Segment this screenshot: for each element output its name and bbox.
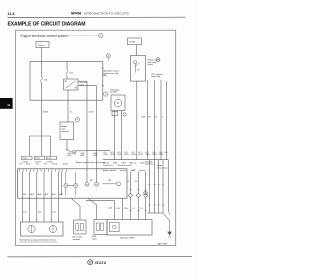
svg-text:1.25: 1.25 <box>52 212 56 214</box>
svg-text:sensor: sensor <box>139 169 145 172</box>
svg-text:B/W: B/W <box>142 116 146 118</box>
svg-text:0.5 W: 0.5 W <box>89 111 94 113</box>
svg-text:ECN: ECN <box>63 163 68 165</box>
svg-text:L-7: L-7 <box>132 208 135 210</box>
svg-text:solenoid: solenoid <box>61 131 68 133</box>
svg-text:valve: valve <box>92 239 97 241</box>
svg-text:Chute: Chute <box>52 162 59 165</box>
svg-text:Battery: Battery <box>38 44 44 47</box>
svg-text:L: L <box>162 116 163 118</box>
svg-text:W-R: W-R <box>125 154 130 156</box>
svg-text:W-R: W-R <box>146 154 151 156</box>
svg-text:ISUZU: ISUZU <box>95 261 107 265</box>
svg-text:Crank case: Crank case <box>103 165 113 167</box>
svg-text:Fuel injection pump (control s: Fuel injection pump (control sleeve sens… <box>20 239 56 242</box>
svg-text:Engine speed: Engine speed <box>103 170 116 172</box>
svg-text:PSG: PSG <box>122 163 127 165</box>
svg-text:W-R: W-R <box>159 154 164 156</box>
svg-text:11: 11 <box>7 103 11 107</box>
svg-text:B/W: B/W <box>68 155 72 157</box>
svg-text:FCV: FCV <box>26 163 31 165</box>
svg-text:W-R: W-R <box>118 154 123 156</box>
svg-text:1.25: 1.25 <box>38 212 42 214</box>
svg-text:W-R: W-R <box>104 154 109 156</box>
svg-text:1-3: 1-3 <box>135 181 138 183</box>
svg-text:1-5: 1-5 <box>127 181 130 183</box>
svg-text:VSS: VSS <box>113 163 118 165</box>
svg-text:EXAMPLE OF CIRCUIT DIAGRAM: EXAMPLE OF CIRCUIT DIAGRAM <box>8 22 86 28</box>
svg-text:(in tank): (in tank) <box>110 91 117 94</box>
svg-text:L-3: L-3 <box>140 208 143 210</box>
svg-text:· INTRODUCTION TO CIRCUITS: · INTRODUCTION TO CIRCUITS <box>82 12 129 16</box>
svg-text:(main): (main) <box>148 64 154 66</box>
svg-text:Idle up: Idle up <box>103 163 110 165</box>
svg-text:Sensor resistor: Sensor resistor <box>118 164 131 167</box>
svg-text:B3: B3 <box>109 180 111 182</box>
svg-text:solenoid: solenoid <box>73 239 80 241</box>
svg-text:NPR66: NPR66 <box>71 12 82 16</box>
svg-text:1.25: 1.25 <box>23 212 27 214</box>
svg-text:B/W: B/W <box>94 155 98 157</box>
svg-text:C-18: C-18 <box>108 207 112 209</box>
svg-text:0.85 B: 0.85 B <box>43 111 49 113</box>
svg-text:Alternator GPM: Alternator GPM <box>121 237 135 240</box>
svg-text:sensor: sensor <box>120 169 126 172</box>
svg-text:Engine speed amp control with: Engine speed amp control with <box>76 161 106 164</box>
svg-text:B2: B2 <box>90 180 92 182</box>
svg-text:W-R: W-R <box>139 154 144 156</box>
svg-text:W-R: W-R <box>132 154 137 156</box>
svg-text:W-R: W-R <box>111 154 116 156</box>
svg-text:Engine electronic control syst: Engine electronic control system <box>21 34 69 38</box>
svg-text:QOS: QOS <box>140 163 145 165</box>
svg-text:A/C sw: A/C sw <box>130 162 137 165</box>
svg-text:lamp relay: lamp relay <box>152 75 161 78</box>
svg-text:M: M <box>117 101 119 105</box>
svg-text:BATT GND: BATT GND <box>158 243 168 246</box>
svg-text:IG SW: IG SW <box>129 42 135 44</box>
svg-text:W-R: W-R <box>153 154 158 156</box>
svg-text:11-6: 11-6 <box>8 12 15 16</box>
svg-text:C-10: C-10 <box>116 208 120 210</box>
svg-text:MAP: MAP <box>131 169 136 172</box>
svg-text:B/W: B/W <box>81 155 85 157</box>
svg-text:W: W <box>149 116 151 118</box>
svg-text:PLG: PLG <box>124 208 128 210</box>
